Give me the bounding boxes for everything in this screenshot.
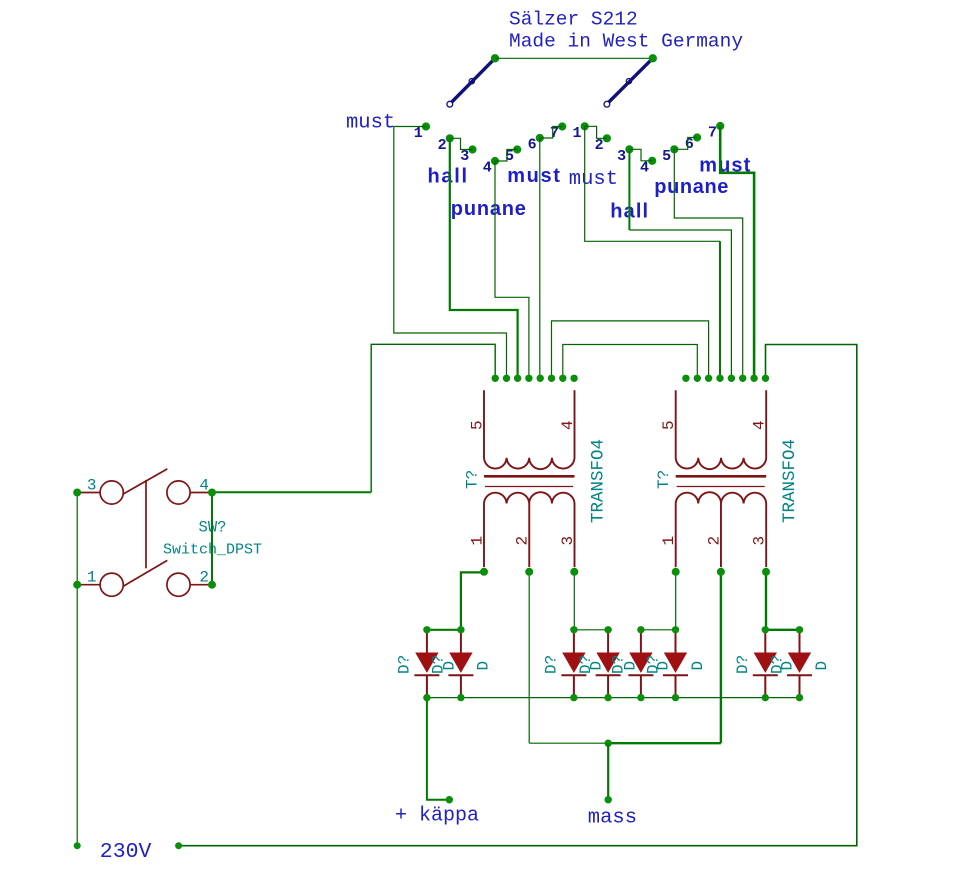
diode D1 (414, 630, 439, 698)
svg-text:4: 4 (640, 159, 649, 176)
wire end dot bottom left (74, 842, 81, 849)
transformer T1 left primary winding and pins 5,4 (484, 390, 575, 469)
svg-text:punane: punane (451, 198, 527, 220)
svg-text:D: D (474, 661, 492, 671)
transformer T2 right core line 1 (676, 475, 767, 478)
svg-text:2: 2 (514, 536, 532, 546)
switch SW? DPST pole B contacts (77, 560, 212, 596)
junction pair B anode right (604, 626, 611, 633)
svg-text:7: 7 (550, 125, 559, 142)
wire T2 pin3 to diode pair D (765, 572, 767, 630)
wire DPST riser to L1 (371, 344, 495, 492)
junction pair A cathode left (423, 694, 430, 701)
svg-text:T?: T? (464, 470, 482, 489)
wire switch A pin4 to L4 (495, 161, 529, 378)
wire diode pair C top link (641, 629, 676, 631)
wire mass horizontal thick (608, 742, 721, 744)
svg-text:mass: mass (588, 807, 637, 830)
svg-text:1: 1 (660, 536, 678, 546)
svg-text:2: 2 (438, 137, 447, 154)
rotary switch B wiper (604, 58, 653, 107)
junction DPST pin 2 (208, 581, 216, 589)
wire switch B pin5 to R6 (674, 149, 742, 378)
svg-text:3: 3 (460, 148, 469, 165)
switch B pin 2 (603, 134, 611, 142)
transformer T2 right secondary winding pins 1,3 (676, 492, 767, 567)
junction pair D cathode left (762, 694, 769, 701)
junction R4 (716, 375, 723, 382)
transformer T2 right core line 2 (677, 486, 765, 488)
svg-text:4: 4 (483, 160, 492, 177)
wire L7 to R2 (563, 345, 698, 379)
svg-text:1: 1 (469, 536, 487, 546)
junction pair C anode left (637, 626, 644, 633)
wire jumper B pins 3-4 (629, 149, 652, 161)
switch A pin 3 (468, 145, 476, 153)
junction pair A cathode right (457, 694, 464, 701)
svg-text:D?: D? (396, 655, 414, 674)
svg-text:T?: T? (655, 470, 673, 489)
svg-text:D?: D? (543, 655, 561, 674)
svg-text:Made in West Germany: Made in West Germany (509, 31, 743, 53)
wire T2 pin2 down (720, 572, 722, 743)
junction L5 (537, 375, 544, 382)
switch SW? mechanical link bar (145, 480, 147, 568)
transformer T1 left secondary winding pins 1,3 (484, 492, 575, 567)
svg-text:D: D (689, 661, 707, 671)
wire switch B pin3 vertical (628, 149, 630, 230)
diode D7 (753, 630, 778, 698)
svg-text:D?: D? (644, 655, 662, 674)
svg-text:3: 3 (751, 536, 769, 546)
junction T2 pin 3 (762, 568, 770, 576)
svg-text:2: 2 (199, 569, 209, 587)
wire jumper B pins 5-6 (674, 138, 697, 150)
wire diode cathode bus (427, 697, 800, 699)
transformer T2 right secondary pin 2 lead (720, 504, 722, 568)
svg-text:230V: 230V (100, 840, 152, 864)
svg-text:must: must (569, 168, 618, 191)
svg-text:punane: punane (654, 176, 729, 198)
svg-text:3: 3 (617, 148, 626, 165)
svg-text:3: 3 (559, 536, 577, 546)
svg-text:1: 1 (414, 125, 423, 142)
svg-text:Sälzer S212: Sälzer S212 (509, 9, 638, 31)
wire end dot kappa (446, 796, 453, 803)
junction T1 pin 1 (480, 568, 488, 576)
switch B pin 1 (581, 122, 589, 130)
wire switch A pin2 to L3 (450, 138, 518, 378)
svg-text:TRANSFO4: TRANSFO4 (780, 439, 800, 523)
junction R2 (694, 375, 701, 382)
svg-text:5: 5 (660, 420, 678, 430)
junction L1 (492, 375, 499, 382)
junction L3 (514, 375, 521, 382)
switch B pin 5 (670, 145, 678, 153)
svg-text:D: D (813, 661, 831, 671)
junction pair A anode right (457, 626, 464, 633)
svg-text:6: 6 (685, 136, 694, 153)
svg-text:7: 7 (708, 125, 717, 142)
wire T2 pin1 to diode pair C (675, 572, 677, 630)
wire R8 to 230V rail (179, 345, 857, 846)
junction mass (605, 740, 612, 747)
junction pair C cathode right (672, 694, 679, 701)
svg-text:hall: hall (428, 165, 469, 187)
junction pair A anode left (423, 626, 430, 633)
wire must: switch A pin1 to L2 (394, 127, 507, 379)
svg-text:1: 1 (572, 125, 581, 142)
svg-text:2: 2 (595, 137, 604, 154)
svg-text:must: must (346, 112, 395, 135)
wire T1 pin1 to diode pair A (461, 572, 484, 629)
junction T1 pin 2 (525, 568, 533, 576)
svg-text:TRANSFO4: TRANSFO4 (589, 439, 609, 523)
transformer T1 left secondary pin 2 lead (528, 504, 530, 568)
wire DPST pin1 down to 230V end (76, 585, 78, 846)
switch A pin 7 (558, 122, 566, 130)
junction R1 (682, 375, 689, 382)
diode D3 (561, 630, 586, 698)
svg-text:2: 2 (705, 536, 723, 546)
junction T2 pin 2 (717, 568, 725, 576)
diode D2 (448, 630, 473, 698)
wire DPST pin4 to pin2 (211, 493, 213, 585)
junction DPST pin 4 (208, 489, 216, 497)
svg-text:D?: D? (577, 655, 595, 674)
wire jumper A pins 6-7 (540, 127, 562, 139)
transformer T1 left core line 1 (484, 475, 575, 478)
svg-text:D?: D? (610, 655, 628, 674)
junction L2 (503, 375, 510, 382)
junction pair B cathode right (604, 694, 611, 701)
junction R5 (728, 375, 735, 382)
switch A pin 4 (491, 157, 499, 165)
svg-text:6: 6 (528, 137, 537, 154)
rotary switch A wiper (447, 58, 495, 107)
junction L7 (559, 375, 566, 382)
switch B pin 3 (625, 145, 633, 153)
svg-text:D?: D? (768, 655, 786, 674)
switch A pin 1 (422, 122, 430, 130)
svg-text:5: 5 (469, 420, 487, 430)
switch B pin 4 (648, 157, 656, 165)
wire diode pair A top link (427, 629, 461, 631)
junction pair D anode right (796, 626, 803, 633)
wire T1 pin3 to diode pair B (573, 572, 575, 630)
switch B pin 6 (693, 133, 701, 141)
wire switch A pin6 to L5 (539, 138, 541, 378)
switch A pin 6 (536, 134, 544, 142)
wire T1 pin2 down (528, 572, 530, 743)
junction L4 (525, 375, 532, 382)
wire switch B pin1 drop to R4 (719, 241, 721, 378)
transformer T1 left core line 2 (485, 486, 573, 488)
svg-text:1: 1 (87, 569, 97, 587)
wire wiper A to wiper B (495, 57, 653, 59)
diode D6 (663, 630, 688, 698)
junction L6 (548, 375, 555, 382)
diode D8 (787, 630, 812, 698)
wire jumper A pins 2-3 (450, 138, 473, 149)
diode D5 (628, 630, 653, 698)
junction T2 pin 1 (672, 568, 680, 576)
svg-text:5: 5 (662, 148, 671, 165)
svg-text:+ käppa: + käppa (395, 805, 479, 828)
wire kappa drop (427, 698, 449, 800)
wire end dot 230V rail (175, 842, 182, 849)
switch SW? DPST pole A contacts (77, 469, 212, 504)
switch B pin 7 (716, 122, 724, 130)
junction T1 pin 3 (570, 568, 578, 576)
junction pair D cathode right (796, 694, 803, 701)
diode D4 (596, 630, 621, 698)
junction DPST pin 3 (73, 489, 81, 497)
junction R7 (750, 375, 757, 382)
wire jumper A pins 4-5 (495, 150, 517, 162)
junction R8 (762, 375, 769, 382)
transformer T2 right primary winding and pins 5,4 (676, 390, 767, 469)
wire L6 to R3 (552, 321, 709, 378)
svg-text:4: 4 (559, 420, 577, 430)
junction L8 (570, 375, 577, 382)
switch A pin 5 (513, 145, 521, 153)
svg-text:must: must (507, 165, 561, 187)
switch A pin 2 (446, 134, 454, 142)
junction wiper B top (649, 54, 657, 62)
svg-text:D?: D? (734, 655, 752, 674)
wire diode pair D top link (765, 629, 799, 631)
junction wiper A top (491, 54, 499, 62)
wire switch B pin1 horizontal (585, 126, 720, 241)
wire jumper B pins 1-2 (585, 126, 607, 138)
wire end dot mass (605, 796, 612, 803)
junction pair D anode left (762, 626, 769, 633)
junction R3 (705, 375, 712, 382)
junction DPST pin 1 (73, 581, 81, 589)
junction pair B cathode left (570, 694, 577, 701)
svg-text:4: 4 (751, 420, 769, 430)
junction pair C cathode left (637, 694, 644, 701)
wire diode pair B top link (574, 629, 608, 631)
wire mass horizontal thin (529, 742, 608, 744)
junction pair C anode right (672, 626, 679, 633)
svg-text:4: 4 (199, 477, 209, 495)
wire switch B pin7 to R7 (720, 126, 754, 378)
wire switch B pin3 to R5 (629, 230, 731, 378)
junction R6 (739, 375, 746, 382)
wire DPST pin4 horizontal (212, 491, 371, 493)
svg-text:3: 3 (87, 477, 97, 495)
wire mass drop (607, 743, 609, 800)
junction pair B anode left (570, 626, 577, 633)
wire DPST pin3 to pin1 (76, 493, 78, 585)
svg-text:D?: D? (430, 655, 448, 674)
